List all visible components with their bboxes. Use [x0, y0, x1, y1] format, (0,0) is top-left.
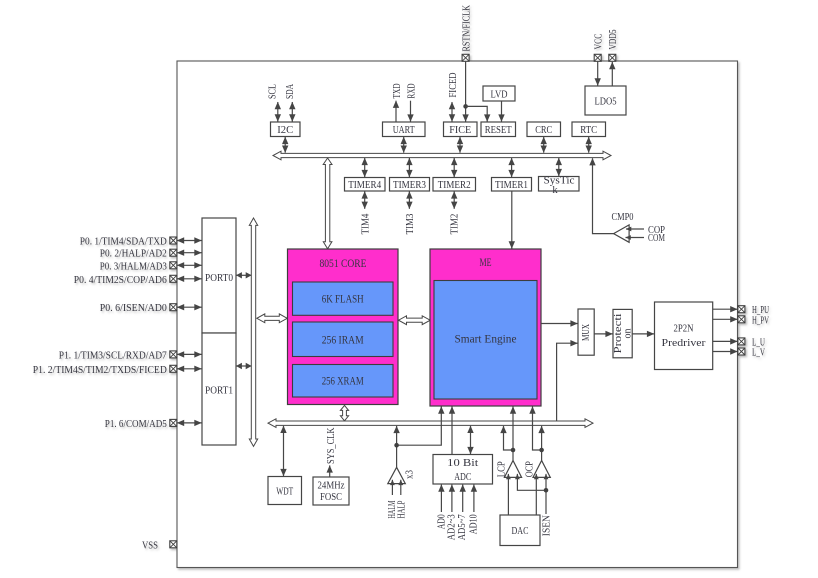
- wire AD10 input: [473, 485, 475, 512]
- svg-text:SysTic: SysTic: [544, 175, 575, 186]
- wire COM input: [626, 237, 645, 239]
- pin P0.4: [170, 275, 177, 282]
- chip boundary: [177, 61, 738, 568]
- wire CMP0 output to bus: [593, 158, 614, 233]
- svg-text:I2C: I2C: [277, 124, 293, 136]
- wire LDO5 to VDD5 pin: [611, 62, 613, 86]
- svg-text:P0. 4/TIM2S/COP/AD6: P0. 4/TIM2S/COP/AD6: [74, 274, 167, 286]
- block TIMER4: [345, 178, 386, 192]
- wire TIMER1 to ME: [511, 191, 513, 248]
- wire HALP input: [400, 480, 402, 495]
- wire RSTN/FICLK pin down to FICE: [465, 62, 467, 122]
- block ME: [430, 249, 541, 406]
- svg-text:RXD: RXD: [405, 83, 417, 98]
- svg-text:H_PV: H_PV: [752, 314, 769, 326]
- svg-text:TIMER4: TIMER4: [348, 179, 381, 191]
- wire RTC to bus: [588, 137, 590, 153]
- svg-text:TIMER2: TIMER2: [438, 179, 471, 191]
- svg-text:P1. 6/COM/AD5: P1. 6/COM/AD5: [105, 418, 167, 430]
- wire Predriver to L_V pin: [713, 351, 738, 353]
- block CRC: [527, 122, 561, 137]
- svg-text:PORT1: PORT1: [205, 385, 233, 397]
- block 2P2N Predriver: [655, 302, 713, 370]
- wire ISEN branch to LCP: [517, 474, 546, 490]
- svg-text:TIM4: TIM4: [359, 213, 371, 234]
- svg-text:SYS_CLK: SYS_CLK: [325, 427, 337, 464]
- wire DAC to LCP: [507, 474, 509, 515]
- block TIMER3: [390, 178, 430, 192]
- wire ADC to ME: [451, 407, 453, 455]
- svg-text:VDD5: VDD5: [607, 29, 619, 49]
- bus: core to lower bus: [340, 405, 348, 420]
- pin VSS: [170, 541, 177, 548]
- wire VCC pin to LDO5: [597, 62, 599, 86]
- wire Predriver to L_U pin: [713, 340, 738, 342]
- svg-text:LCP: LCP: [496, 461, 508, 477]
- block TIMER1: [492, 178, 532, 192]
- wire x3 junction to ME: [397, 407, 442, 446]
- wire LCP to ME: [512, 407, 514, 451]
- svg-text:HALP: HALP: [395, 501, 407, 519]
- block 8051 CORE: [288, 249, 399, 405]
- svg-text:LVD: LVD: [491, 89, 508, 101]
- block RESET: [481, 122, 516, 137]
- svg-text:COM: COM: [648, 232, 665, 244]
- svg-text:L_V: L_V: [752, 347, 765, 359]
- svg-text:Smart Engine: Smart Engine: [455, 332, 517, 346]
- wire TIMER1 to bus: [511, 158, 513, 177]
- op-amp LCP comparator: [504, 461, 521, 478]
- wire FICED to FICE: [451, 102, 453, 122]
- block RTC: [572, 122, 606, 137]
- bus: top peripheral bus: [273, 151, 611, 160]
- block Protect: [613, 309, 632, 357]
- bus: port vertical bus: [249, 218, 257, 446]
- node LCP junction: [511, 448, 516, 453]
- svg-text:TIM3: TIM3: [404, 213, 416, 234]
- svg-text:P0. 6/ISEN/AD0: P0. 6/ISEN/AD0: [100, 302, 167, 314]
- block 256 IRAM: [293, 322, 394, 357]
- svg-text:VSS: VSS: [142, 539, 158, 551]
- wire CRC to bus: [543, 137, 545, 153]
- pin VDD5: [609, 54, 616, 61]
- svg-text:x3: x3: [404, 470, 415, 479]
- svg-text:PORT0: PORT0: [205, 272, 233, 284]
- block I2C: [271, 122, 301, 137]
- wire pin P1.6 to PORT1: [177, 422, 202, 424]
- svg-text:ADC: ADC: [454, 471, 471, 483]
- svg-text:TIMER3: TIMER3: [393, 179, 426, 191]
- block LVD: [483, 86, 515, 101]
- svg-text:FOSC: FOSC: [320, 491, 342, 503]
- node OCP junction: [539, 448, 544, 453]
- wire COP input: [626, 228, 644, 230]
- svg-text:6K FLASH: 6K FLASH: [322, 292, 364, 306]
- pin P1.2: [170, 365, 177, 372]
- block Smart Engine: [434, 281, 537, 400]
- svg-text:on: on: [623, 329, 634, 339]
- wire Protect to Predriver: [632, 333, 654, 335]
- wire TIMER4 to bus: [364, 158, 366, 177]
- bus: port bus to core: [257, 314, 288, 323]
- svg-text:8051 CORE: 8051 CORE: [320, 256, 367, 270]
- svg-text:LDO5: LDO5: [595, 96, 617, 108]
- wire I2C to bus: [284, 137, 286, 153]
- wire OCP output: [541, 450, 543, 461]
- op-amp x3 hall comparator: [388, 467, 406, 483]
- pin P0.3: [170, 262, 177, 269]
- wire AD5~7 input: [462, 485, 464, 512]
- svg-text:SCL: SCL: [267, 84, 279, 99]
- block PORT1: [202, 333, 236, 445]
- wire pin P0.3 to PORT0: [177, 264, 202, 266]
- svg-text:RTC: RTC: [580, 124, 597, 136]
- svg-text:256 IRAM: 256 IRAM: [322, 333, 364, 347]
- wire TIM4 io: [364, 191, 366, 208]
- svg-text:FICE: FICE: [449, 124, 471, 136]
- wire ME to MUX: [541, 323, 577, 325]
- wire ADC to lower bus: [470, 426, 472, 454]
- wire FOSC SYS_CLK out: [329, 465, 331, 476]
- op-amp OCP comparator: [533, 461, 550, 478]
- wire lower bus to MUX: [557, 343, 578, 421]
- svg-text:Predriver: Predriver: [662, 337, 706, 349]
- pin P1.1: [170, 351, 177, 358]
- block 10 Bit ADC: [433, 455, 493, 485]
- svg-text:FICED: FICED: [447, 72, 459, 97]
- svg-text:2P2N: 2P2N: [674, 323, 694, 335]
- wire AD0 input: [440, 485, 442, 512]
- svg-text:RESET: RESET: [485, 124, 512, 136]
- wire pin P1.2 to PORT1: [177, 368, 202, 370]
- svg-text:P0. 1/TIM4/SDA/TXD: P0. 1/TIM4/SDA/TXD: [80, 236, 167, 248]
- wire FICE to bus: [459, 137, 461, 153]
- wire OCP to lower bus: [541, 426, 543, 450]
- pin VCC: [594, 54, 601, 61]
- svg-text:256 XRAM: 256 XRAM: [322, 374, 364, 388]
- block 6K FLASH: [293, 282, 394, 315]
- wire pin P0.4 to PORT0: [177, 278, 202, 280]
- wire LCP output: [512, 450, 514, 461]
- node x3 junction: [394, 443, 399, 448]
- wire TIMER2 to bus: [453, 158, 455, 177]
- pin P0.1: [170, 237, 177, 244]
- pin RSTN/FICLK: [462, 54, 469, 61]
- svg-text:ME: ME: [480, 255, 492, 269]
- bus: lower bus: [268, 419, 593, 428]
- svg-text:P0. 2/HALP/AD2: P0. 2/HALP/AD2: [100, 248, 167, 260]
- svg-text:P1. 1/TIM3/SCL/RXD/AD7: P1. 1/TIM3/SCL/RXD/AD7: [59, 349, 167, 361]
- block SysTick: [539, 177, 580, 192]
- bus: core to ME: [399, 316, 431, 325]
- svg-text:10 Bit: 10 Bit: [447, 457, 478, 469]
- node ISEN junction: [544, 488, 549, 493]
- svg-text:P0. 3/HALM/AD3: P0. 3/HALM/AD3: [100, 260, 167, 272]
- wire SCL to I2C: [277, 102, 279, 122]
- wire LCP to lower bus: [504, 426, 514, 450]
- block PORT0: [202, 218, 236, 333]
- svg-text:TIMER1: TIMER1: [495, 179, 528, 191]
- svg-text:TXD: TXD: [391, 83, 403, 98]
- wire PORT1 to port bus: [236, 365, 251, 367]
- node RSTN junction: [463, 104, 468, 109]
- wire pin P0.1 to PORT0: [177, 240, 202, 242]
- wire UART to bus: [403, 137, 405, 153]
- block TIMER2: [433, 178, 476, 192]
- wire pin P0.2 to PORT0: [177, 252, 202, 254]
- bus: top bus to 8051 core: [323, 158, 332, 249]
- svg-text:SDA: SDA: [284, 84, 296, 99]
- wire Predriver to H_PU pin: [713, 308, 738, 310]
- pin P0.6: [170, 304, 177, 311]
- svg-text:ISEN: ISEN: [540, 515, 552, 536]
- block WDT: [268, 477, 302, 505]
- wire TIM3 io: [408, 191, 410, 208]
- wire RSTN junction to RESET: [466, 106, 488, 121]
- wire ISEN to OCP: [545, 474, 547, 514]
- wire TXD out of UART: [395, 101, 397, 122]
- svg-text:MUX: MUX: [580, 324, 592, 341]
- wire SysTick to bus: [558, 158, 560, 176]
- pin P1.6: [170, 419, 177, 426]
- wire AD2~3 input: [451, 485, 453, 512]
- svg-text:CMP0: CMP0: [612, 211, 634, 223]
- wire Predriver to H_PV pin: [713, 318, 738, 320]
- svg-text:P1. 2/TIM4S/TIM2/TXDS/FICED: P1. 2/TIM4S/TIM2/TXDS/FICED: [33, 364, 167, 376]
- svg-text:WDT: WDT: [276, 486, 293, 498]
- svg-text:AD5~7: AD5~7: [456, 514, 468, 540]
- svg-text:OCP: OCP: [523, 461, 535, 477]
- pin H_PU: [738, 306, 745, 313]
- block 256 XRAM: [293, 365, 394, 398]
- block DAC: [500, 515, 540, 546]
- pin P0.2: [170, 249, 177, 256]
- svg-text:DAC: DAC: [512, 525, 529, 537]
- block MUX: [578, 309, 594, 355]
- svg-text:UART: UART: [393, 124, 415, 136]
- wire pin P1.1 to PORT1: [177, 353, 202, 355]
- wire TIMER3 to bus: [408, 158, 410, 177]
- wire PORT0 to port bus: [236, 274, 251, 276]
- wire WDT to lower bus: [283, 426, 285, 476]
- pin L_V: [738, 348, 745, 355]
- wire x3 junction to lower bus: [396, 426, 398, 445]
- wire SDA to I2C: [291, 102, 293, 122]
- svg-text:TIM2: TIM2: [449, 214, 461, 235]
- wire OCP to ME: [533, 407, 542, 451]
- svg-text:k: k: [552, 185, 558, 196]
- wire TIM2 io: [453, 191, 455, 208]
- pin L_U: [738, 338, 745, 345]
- block UART: [383, 122, 426, 137]
- wire MUX to Protect: [594, 333, 612, 335]
- wire x3 output to junction: [396, 445, 398, 467]
- pin H_PV: [738, 316, 745, 323]
- svg-text:24MHz: 24MHz: [318, 480, 345, 492]
- wire HALM input: [391, 480, 393, 495]
- svg-text:VCC: VCC: [593, 34, 605, 50]
- wire pin P0.6 to PORT0: [177, 306, 202, 308]
- block LDO5: [585, 86, 626, 115]
- svg-text:AD10: AD10: [467, 514, 479, 534]
- wire DAC to OCP: [535, 474, 537, 515]
- svg-text:CRC: CRC: [535, 124, 552, 136]
- block 24MHz FOSC: [313, 477, 349, 505]
- svg-text:RSTN/FICLK: RSTN/FICLK: [461, 5, 473, 52]
- op-amp CMP0 comparator: [614, 225, 630, 242]
- block FICE: [444, 122, 478, 137]
- wire RXD into UART: [410, 101, 412, 122]
- wire LVD to RESET: [501, 101, 503, 121]
